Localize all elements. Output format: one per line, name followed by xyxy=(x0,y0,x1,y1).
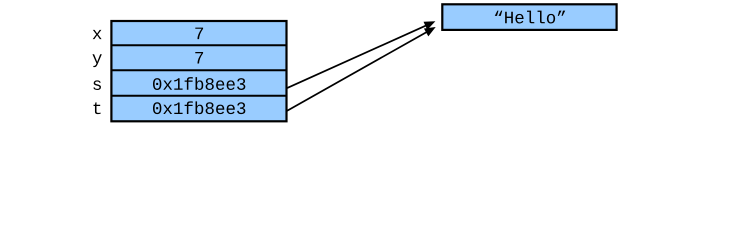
value 7 in row y xyxy=(195,52,203,64)
label x xyxy=(93,30,102,39)
variable table frame (rows x,y,s,t) xyxy=(111,21,286,121)
label t xyxy=(94,102,101,114)
string object box xyxy=(442,4,616,30)
row divider between y and s xyxy=(111,69,286,71)
value 7 in row x xyxy=(195,28,203,40)
wire: pointer from s to string object xyxy=(287,25,427,88)
arrowhead of s pointer xyxy=(424,21,436,30)
arrowhead of t pointer xyxy=(424,27,436,36)
label y xyxy=(92,54,101,67)
label s xyxy=(93,80,101,90)
value 0x1fb8ee3 in row t xyxy=(153,101,245,114)
row divider between s and t xyxy=(111,95,286,97)
wire: pointer from t to string object xyxy=(287,32,427,111)
row divider between x and y xyxy=(111,44,286,46)
value 0x1fb8ee3 in row s xyxy=(153,77,245,90)
string value "Hello" xyxy=(495,11,565,24)
